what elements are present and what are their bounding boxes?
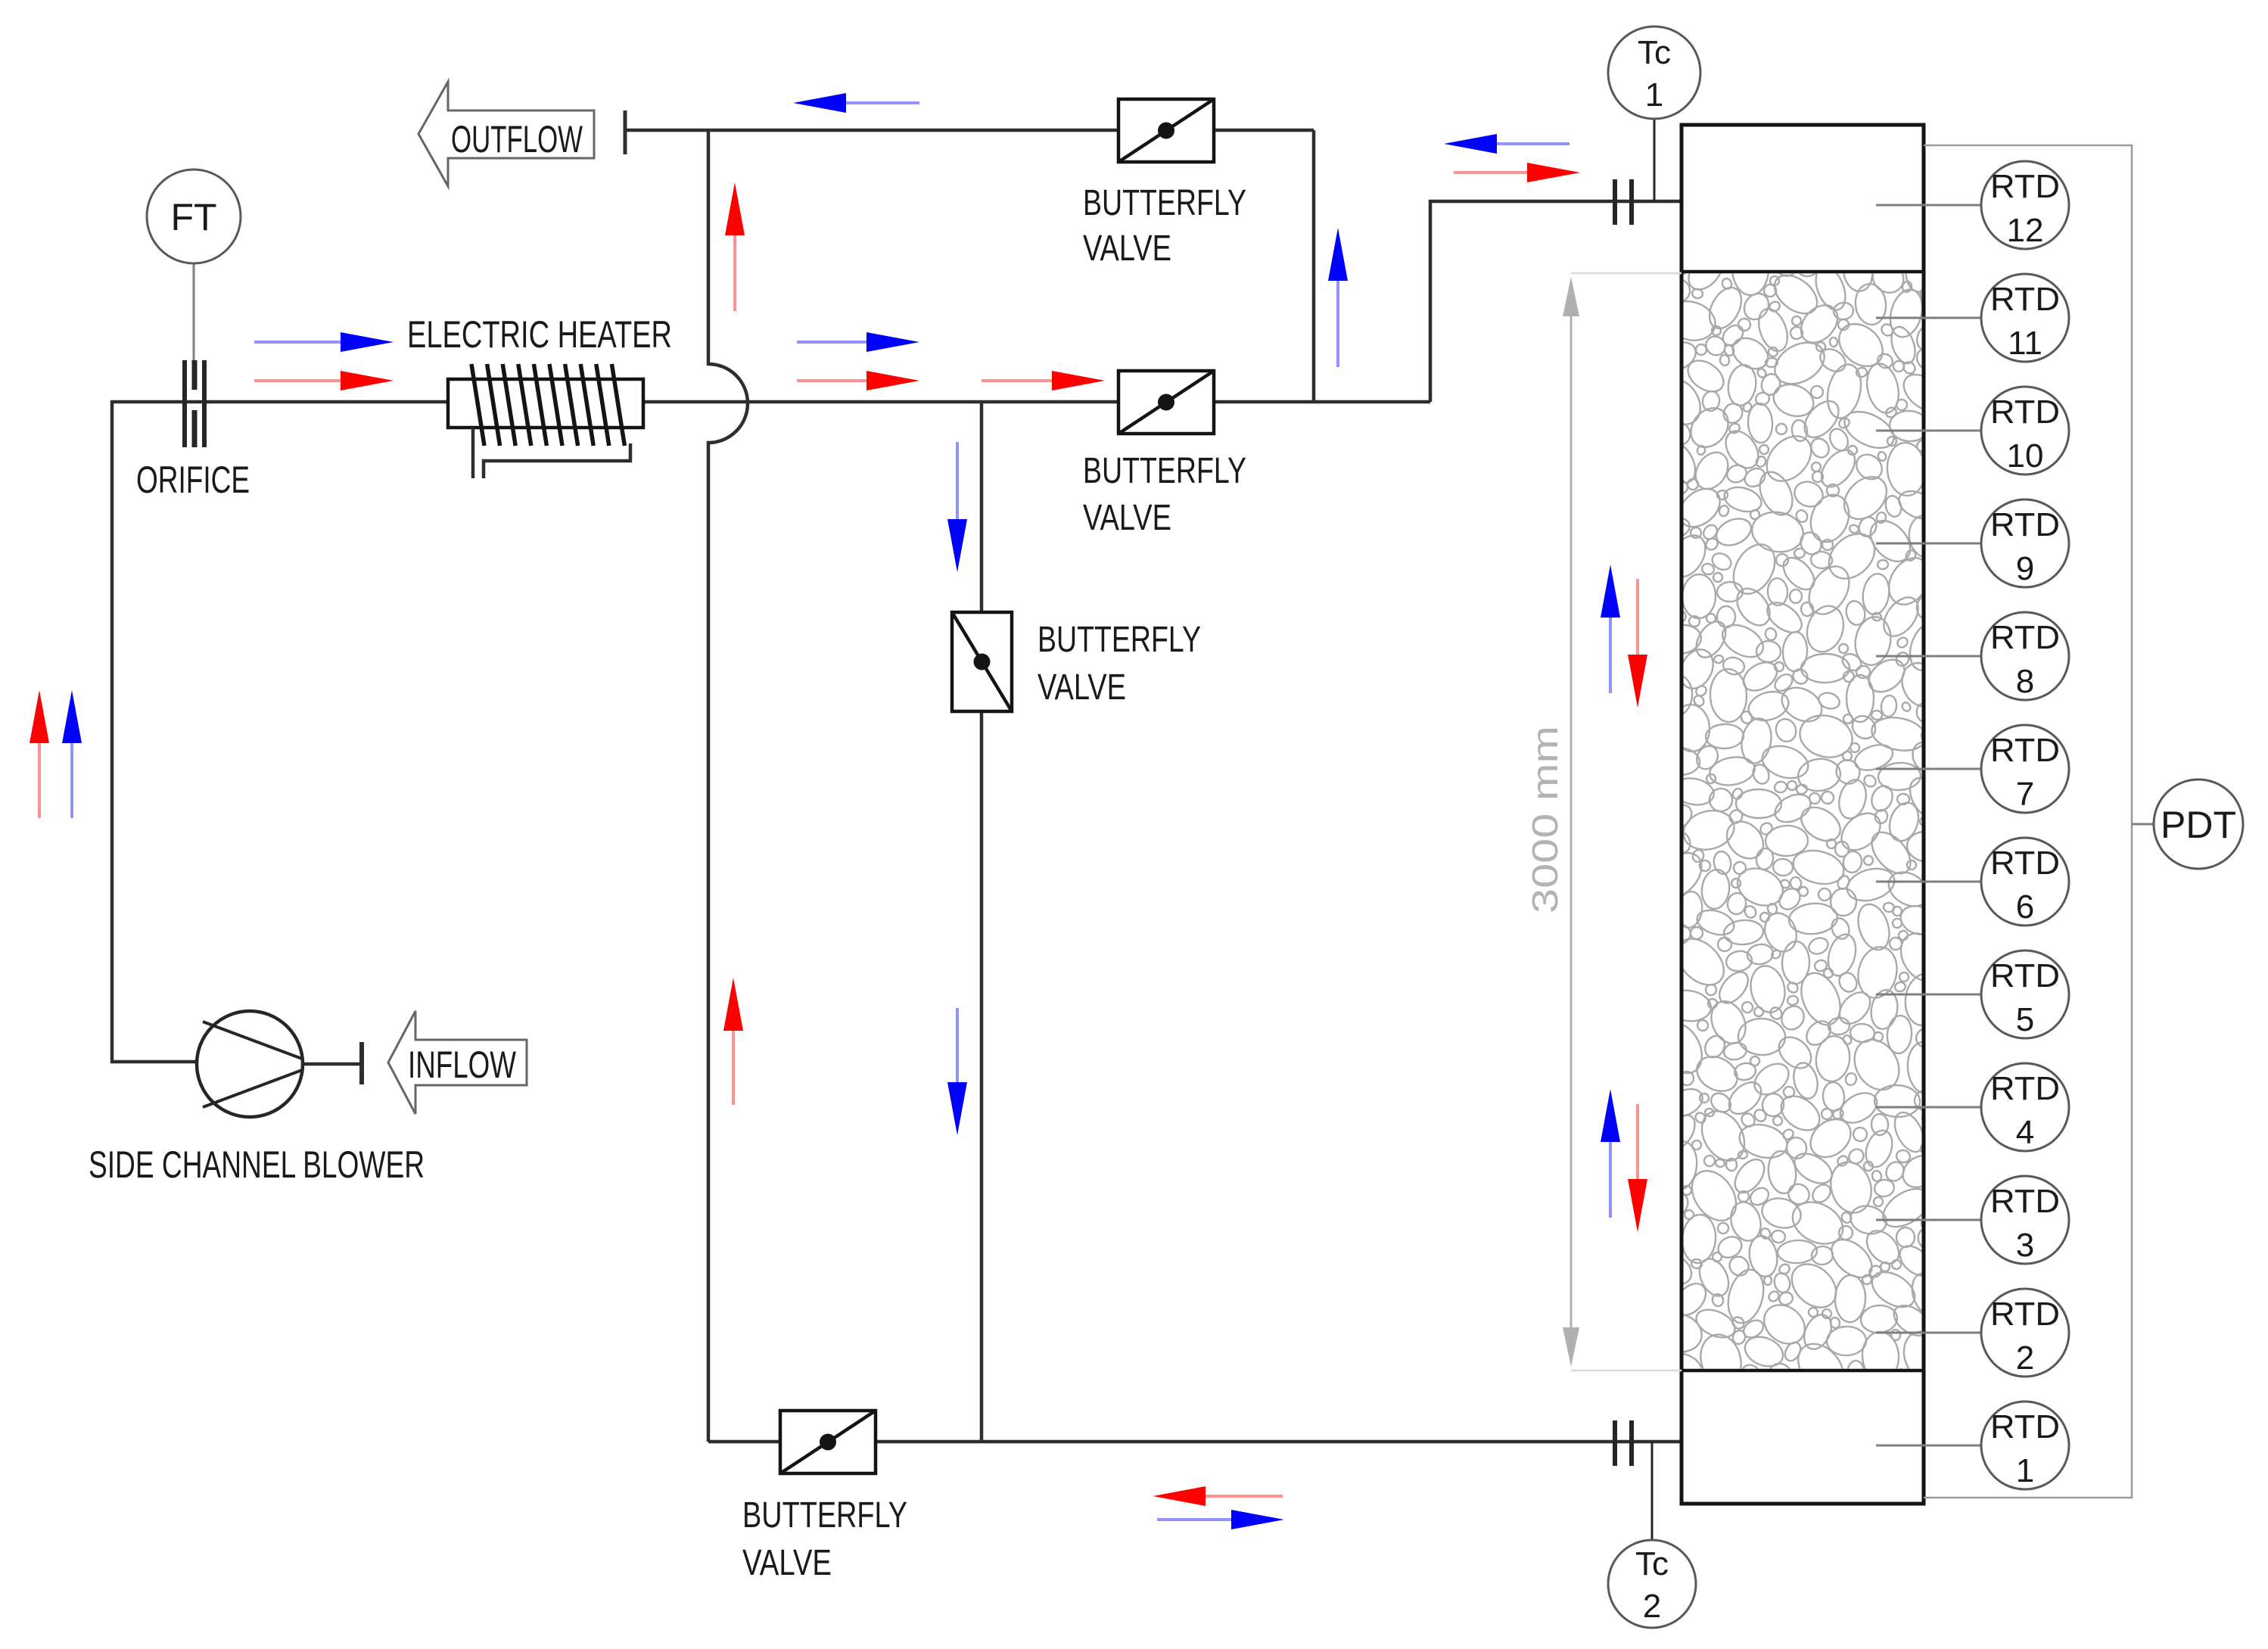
svg-text:VALVE: VALVE [742,1543,832,1583]
flow arrow red right (before valve V2) [982,371,1105,390]
flange bottom (column outlet) [1615,1420,1632,1466]
OUTFLOW arrow symbol [418,82,594,186]
flow arrow blue up (left downcomer) [62,690,82,818]
butterfly valve V3 (bottom header) [780,1411,876,1473]
instrument RTD 1 [1981,1402,2069,1489]
svg-text:BUTTERFLY: BUTTERFLY [742,1495,907,1535]
svg-text:3000 mm: 3000 mm [1526,726,1566,913]
svg-text:Tc: Tc [1635,1545,1669,1582]
orifice plate [185,360,204,447]
flow arrow blue right (after orifice) [254,332,394,352]
RTD 3 sensor line [1876,1219,1981,1221]
flow arrow blue up (bed lower) [1601,1089,1620,1218]
svg-text:8: 8 [2016,663,2034,700]
svg-text:PDT: PDT [2161,804,2236,846]
svg-text:1: 1 [2016,1452,2034,1489]
svg-text:RTD: RTD [1990,619,2060,656]
node: inflow pipe end bar [359,1042,364,1084]
svg-text:2: 2 [1643,1588,1661,1625]
flow arrow blue up (bed upper) [1601,565,1620,693]
svg-text:RTD: RTD [1990,281,2060,318]
svg-text:5: 5 [2016,1001,2034,1038]
RTD 11 sensor line [1876,317,1981,319]
instrument PDT (differential pressure transmitter) [2154,779,2243,869]
instrument RTD 7 [1981,725,2069,813]
butterfly valve V2 (heater outlet) [1118,371,1214,434]
flow arrow red up (left downcomer) [30,690,49,818]
svg-text:VALVE: VALVE [1038,667,1126,708]
svg-text:OUTFLOW: OUTFLOW [451,118,583,160]
svg-text:RTD: RTD [1990,168,2060,205]
INFLOW arrow symbol [388,1011,527,1114]
flow arrow red down (bed upper) [1628,579,1647,708]
label BUTTERFLY VALVE V2 [1083,451,1246,538]
instrument FT stem [193,263,195,362]
RTD 6 sensor line [1876,881,1981,883]
instrument RTD 12 [1981,161,2069,249]
RTD 5 sensor line [1876,994,1981,996]
svg-text:RTD: RTD [1990,1183,2060,1220]
flow arrow blue up (x=1768 drop) [1328,228,1348,367]
flow arrow blue right (heater outlet) [797,332,919,352]
wire: supply pipe from left loop to heater y=531 [112,402,448,1062]
dimension 3000 mm [1526,273,1682,1371]
flow arrow red up (bypass riser top) [725,182,745,311]
svg-text:RTD: RTD [1990,732,2060,769]
svg-text:3: 3 [2016,1227,2034,1264]
RTD 9 sensor line [1876,543,1981,545]
wire: riser to column inlet x=1890 and top inlet pipe y=264 [1430,201,1682,402]
instrument Tc 1 (thermocouple) [1608,26,1700,119]
svg-text:Tc: Tc [1638,34,1671,71]
flow arrow blue down (branch below valve V4) [947,1008,967,1135]
svg-text:12: 12 [2007,212,2044,249]
svg-text:2: 2 [2016,1339,2034,1377]
svg-text:7: 7 [2016,776,2034,813]
label BUTTERFLY VALVE V1 [1083,183,1246,269]
wire: heater outlet pipe y=531 [643,400,1430,404]
wire: bypass riser x=936 with hop over pipe [708,130,748,1442]
wire: blower outlet [301,1063,362,1066]
instrument RTD 3 [1981,1176,2069,1264]
flow arrow red left (bottom header) [1153,1486,1283,1506]
RTD 2 sensor line [1876,1332,1981,1334]
node: outflow pipe end bar [624,110,627,154]
svg-text:RTD: RTD [1990,1408,2060,1445]
instrument RTD 8 [1981,612,2069,700]
instrument RTD 10 [1981,387,2069,474]
wire: branch through vertical valve x=1297 [980,402,984,1442]
svg-text:4: 4 [2016,1114,2034,1151]
svg-text:FT: FT [170,196,216,238]
flow arrow blue left (column inlet) [1444,134,1570,154]
flow arrow red right (heater outlet) [797,371,919,390]
svg-text:6: 6 [2016,888,2034,926]
RTD 12 sensor line [1876,204,1981,207]
label BUTTERFLY VALVE V3 [742,1495,907,1583]
instrument RTD 5 [1981,951,2069,1038]
wire: drop from outflow header x=1736 [1312,130,1316,402]
svg-text:BUTTERFLY: BUTTERFLY [1038,620,1201,660]
svg-text:ELECTRIC HEATER: ELECTRIC HEATER [407,313,672,356]
instrument Tc 2 (thermocouple) [1608,1540,1696,1628]
instrument PDT connector [2132,823,2154,826]
instrument RTD 11 [1981,274,2069,362]
svg-text:10: 10 [2007,437,2044,474]
instrument RTD 2 [1981,1289,2069,1377]
svg-text:9: 9 [2016,550,2034,587]
instrument Tc1 stem [1654,120,1656,201]
RTD 7 sensor line [1876,768,1981,770]
instrument FT (flow transmitter) [147,170,241,263]
svg-text:INFLOW: INFLOW [408,1044,517,1086]
column top separator [1682,270,1924,274]
svg-text:RTD: RTD [1990,394,2060,431]
butterfly valve V4 (vertical branch) [952,612,1012,711]
flow arrow red up (bypass riser lower) [723,978,743,1105]
svg-text:ORIFICE: ORIFICE [136,459,250,501]
flow arrow red right (after orifice) [254,371,394,390]
instrument RTD 4 [1981,1063,2069,1151]
flow arrow blue down (branch above valve V4) [947,442,967,572]
flow arrow blue left (outflow header) [793,93,919,113]
RTD 10 sensor line [1876,430,1981,432]
instrument RTD 6 [1981,838,2069,926]
svg-text:SIDE CHANNEL BLOWER: SIDE CHANNEL BLOWER [89,1143,425,1186]
packed bed column vessel [1682,125,1924,1504]
svg-text:VALVE: VALVE [1083,498,1171,538]
svg-text:BUTTERFLY: BUTTERFLY [1083,451,1246,491]
butterfly valve V1 (outflow header) [1118,99,1214,162]
RTD 1 sensor line [1876,1445,1981,1447]
svg-text:RTD: RTD [1990,1296,2060,1333]
svg-text:BUTTERFLY: BUTTERFLY [1083,183,1246,223]
instrument loop frame [1924,145,2132,1498]
electric heater [448,364,643,478]
label BUTTERFLY VALVE V4 [1038,620,1201,708]
instrument RTD 9 [1981,499,2069,587]
instrument Tc2 stem [1651,1442,1654,1539]
flow arrow red right (column inlet) [1454,163,1580,182]
wire: bottom header y=1905 [708,1440,1682,1444]
flow arrow blue right (bottom header) [1157,1510,1284,1529]
wire: outflow header y=172 [625,129,1314,132]
flange top (column inlet) [1615,179,1632,225]
svg-text:RTD: RTD [1990,957,2060,994]
svg-text:RTD: RTD [1990,845,2060,882]
flow arrow red down (bed lower) [1628,1104,1647,1232]
RTD 4 sensor line [1876,1106,1981,1109]
side channel blower [197,1011,303,1117]
svg-text:VALVE: VALVE [1083,229,1171,269]
svg-text:11: 11 [2008,325,2042,362]
svg-text:RTD: RTD [1990,506,2060,543]
svg-text:1: 1 [1645,76,1663,114]
RTD 8 sensor line [1876,655,1981,658]
svg-text:RTD: RTD [1990,1070,2060,1107]
column bottom separator [1682,1369,1924,1373]
